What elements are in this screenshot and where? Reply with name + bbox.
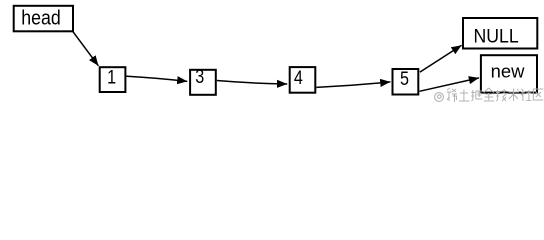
node 3 box [190,70,216,95]
watermark char tu [459,90,470,102]
node new box [481,55,537,92]
wire 5 to NULL [420,45,462,72]
svg-text:3: 3 [195,67,204,88]
watermark char shu [509,89,520,102]
svg-text:1: 1 [107,68,116,89]
svg-text:5: 5 [400,69,409,90]
watermark char jin [484,88,495,101]
wire 5 to new [419,78,479,91]
watermark char xi [447,88,458,102]
node 5 box [393,69,419,95]
watermark @ sign [435,93,444,102]
svg-text:head: head [21,8,61,30]
svg-text:new: new [491,61,525,82]
watermark char qu [533,89,543,100]
node 4 box [290,67,316,93]
wire 1 to 3 [126,76,187,81]
watermark char ji [496,89,507,101]
wire head to 1 [72,31,98,66]
svg-text:4: 4 [294,68,303,89]
svg-text:NULL: NULL [474,26,519,47]
watermark char jue [471,90,482,101]
watermark char she [521,89,532,101]
wire 4 to 5 [316,82,390,88]
node 1 box [100,67,126,92]
wire 3 to 4 [217,81,287,85]
node head box [14,6,73,32]
node NULL box [463,18,537,49]
